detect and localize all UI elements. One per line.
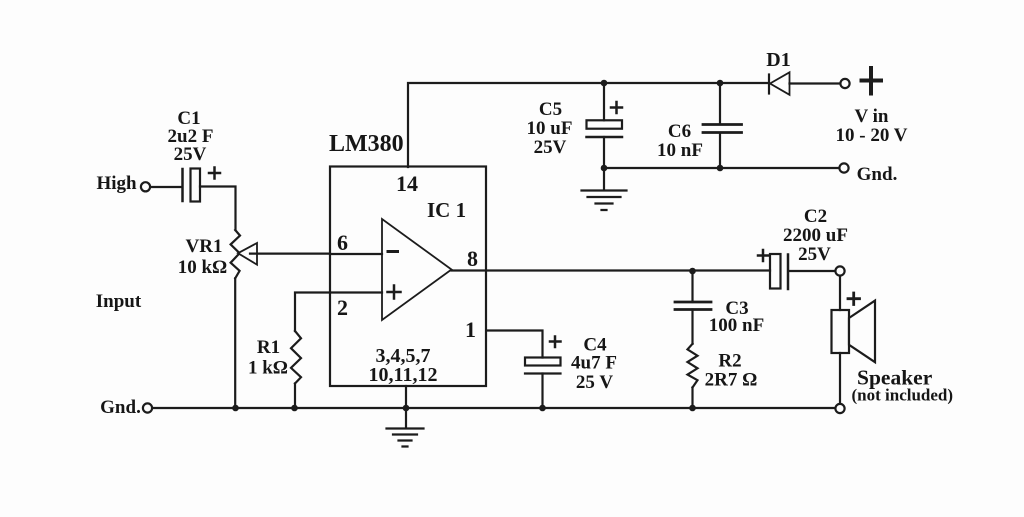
node V+ terminal circle — [840, 79, 849, 88]
plus sign speaker — [848, 293, 860, 305]
node gnd rail / C5 — [601, 165, 608, 172]
node gnd / VR1 — [232, 405, 239, 412]
svg-text:IC 1: IC 1 — [427, 198, 466, 222]
svg-text:25 V: 25 V — [576, 372, 613, 393]
op-amp U1 triangle — [382, 219, 452, 320]
wire VR1 bottom to gnd rail — [234, 278, 236, 408]
svg-text:C6: C6 — [668, 121, 691, 142]
capacitor C3 — [675, 302, 711, 310]
svg-text:Gnd.: Gnd. — [100, 397, 141, 418]
plus sign V in (large) — [862, 68, 882, 94]
wire C3 to R2 — [691, 310, 693, 344]
wire C6 branch — [719, 83, 721, 168]
svg-text:(not included): (not included) — [852, 386, 954, 405]
wire pin 1 to C4 — [487, 331, 543, 358]
wire output node down to C3 — [691, 271, 693, 302]
svg-text:2200 uF: 2200 uF — [783, 225, 848, 246]
svg-text:R2: R2 — [718, 351, 741, 372]
plus sign C4 — [550, 337, 561, 348]
potentiometer VR1 — [231, 230, 240, 278]
wire top rail from IC pin14 to D1 — [408, 83, 768, 167]
node Gnd right terminal circle — [839, 163, 848, 172]
wire C5 branch down from top rail — [603, 83, 605, 120]
svg-text:10 uF: 10 uF — [527, 118, 573, 139]
node output / C3 — [689, 268, 696, 275]
wire pin 2 to R1 top — [295, 293, 330, 332]
node gnd / C4 — [539, 405, 546, 412]
capacitor C6 — [703, 125, 742, 133]
minus sign op-amp input — [388, 250, 398, 253]
wire VR1 wiper to pin 6 — [250, 253, 330, 255]
svg-text:Input: Input — [96, 291, 142, 312]
svg-text:25V: 25V — [798, 244, 831, 265]
svg-text:10 - 20 V: 10 - 20 V — [836, 125, 908, 146]
wire speaker to bottom terminal — [839, 353, 841, 404]
svg-text:1 kΩ: 1 kΩ — [248, 358, 288, 379]
svg-text:C5: C5 — [539, 99, 562, 120]
capacitor C5 — [587, 120, 623, 128]
svg-text:10,11,12: 10,11,12 — [369, 364, 438, 386]
VR1 wiper arrow — [238, 243, 257, 265]
svg-text:High: High — [96, 173, 137, 194]
node gnd rail / C6 — [717, 165, 724, 172]
node speaker + terminal circle — [835, 266, 844, 275]
svg-text:2R7 Ω: 2R7 Ω — [705, 370, 758, 391]
plus sign op-amp input — [388, 286, 401, 299]
plus sign C1 — [209, 168, 220, 179]
wire pin 8 output to C2 — [452, 269, 771, 271]
node speaker - terminal circle — [835, 404, 844, 413]
resistor R2 — [688, 344, 698, 388]
svg-text:Gnd.: Gnd. — [857, 164, 898, 185]
node gnd / IC — [403, 405, 410, 412]
wire pin 6 internal — [330, 253, 382, 255]
wire speaker terminal down — [839, 276, 841, 310]
wire High terminal to C1 — [151, 186, 182, 188]
wire gnd rail right (C5 node to Gnd terminal) — [604, 167, 839, 169]
ground (below IC) — [387, 429, 424, 447]
svg-text:2: 2 — [337, 295, 348, 320]
plus sign C5 — [611, 102, 622, 113]
capacitor C1 — [181, 169, 184, 201]
wire C5 node to ground symbol — [603, 168, 605, 190]
svg-text:LM380: LM380 — [329, 131, 404, 157]
svg-text:4u7 F: 4u7 F — [571, 353, 617, 374]
wire C2 to speaker terminal — [789, 270, 835, 272]
node High input terminal circle — [141, 182, 150, 191]
svg-text:D1: D1 — [766, 49, 790, 71]
svg-text:100 nF: 100 nF — [709, 315, 764, 336]
wire R1 bottom to gnd rail — [294, 384, 296, 409]
svg-text:6: 6 — [337, 230, 348, 255]
ground (below C5) — [582, 191, 627, 211]
speaker — [832, 310, 850, 353]
node gnd / R2 — [689, 405, 696, 412]
wire C1 to VR1 — [200, 187, 236, 231]
op-amp U1 box outline — [330, 167, 486, 387]
wire pin 2 internal — [330, 291, 382, 293]
node top rail / C6 — [717, 80, 724, 87]
svg-text:8: 8 — [467, 246, 478, 271]
svg-text:25V: 25V — [174, 144, 207, 165]
svg-text:10 nF: 10 nF — [657, 140, 703, 161]
wire R2 bottom to gnd rail — [691, 388, 693, 409]
svg-text:VR1: VR1 — [186, 236, 223, 257]
plus sign C2 — [758, 250, 769, 261]
svg-text:1: 1 — [465, 317, 476, 342]
capacitor C2 — [770, 254, 781, 289]
node gnd / R1 — [291, 405, 298, 412]
wire IC bottom to ground — [405, 386, 407, 428]
node Gnd left terminal circle — [143, 403, 152, 412]
capacitor C4 — [525, 358, 561, 366]
svg-text:25V: 25V — [534, 137, 567, 158]
wire bottom ground rail — [153, 407, 835, 409]
wire D1 to V+ terminal — [790, 82, 841, 84]
svg-text:C2: C2 — [804, 206, 827, 227]
svg-text:10 kΩ: 10 kΩ — [178, 257, 228, 278]
svg-text:V in: V in — [855, 106, 889, 127]
node top rail / C5 — [601, 80, 608, 87]
resistor R1 — [291, 331, 301, 384]
svg-text:14: 14 — [396, 171, 418, 196]
svg-text:R1: R1 — [257, 337, 280, 358]
diode D1 — [768, 75, 770, 94]
